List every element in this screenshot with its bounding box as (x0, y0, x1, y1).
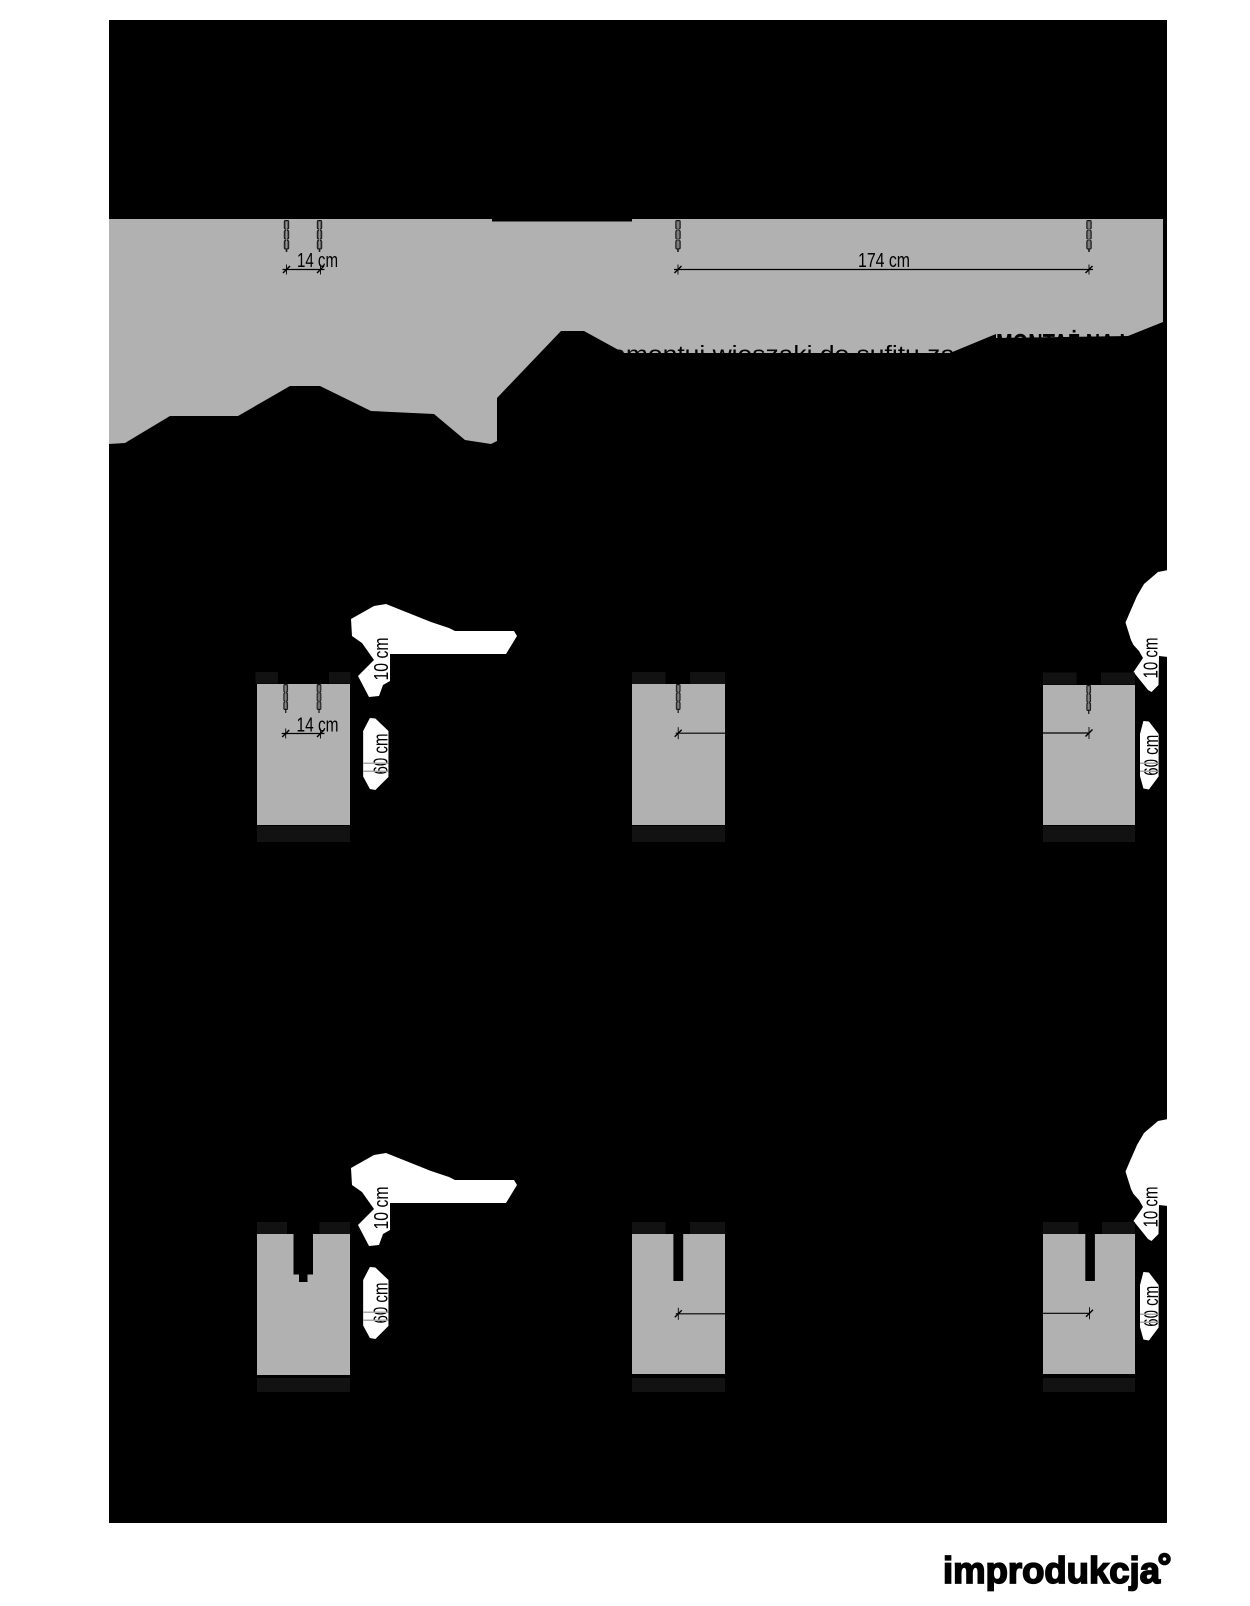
svg-text:174 cm: 174 cm (858, 250, 910, 272)
cable fitting (1087, 685, 1091, 714)
slot (294, 1234, 314, 1275)
leader line (1041, 1307, 1094, 1319)
detail block D (257, 1234, 350, 1375)
svg-text:60 cm: 60 cm (1141, 735, 1163, 776)
svg-text:60 cm: 60 cm (1141, 1286, 1163, 1327)
dimension 14 cm (detail) (282, 715, 339, 739)
lamp silhouette (clipped) (1126, 570, 1169, 692)
svg-text:improdukcja: improdukcja (943, 1549, 1161, 1591)
label 60 cm (1140, 721, 1163, 790)
detail block C (1043, 685, 1135, 825)
top edge notch (492, 219, 632, 222)
svg-text:14 cm: 14 cm (297, 250, 338, 272)
label 60 cm (1140, 1272, 1163, 1341)
ceiling slab (109, 219, 1163, 444)
cable fitting (284, 684, 288, 713)
cable fitting (284, 220, 288, 252)
leader wedge (950, 334, 996, 353)
detail block E (632, 1234, 725, 1374)
cable fitting (676, 220, 680, 252)
leader line (1041, 727, 1093, 739)
svg-text:10 cm: 10 cm (1141, 1187, 1163, 1228)
svg-text:zamontuj wieszaki do sufitu za: zamontuj wieszaki do sufitu za (598, 342, 956, 369)
cable fitting (676, 684, 680, 713)
leader line (675, 1308, 725, 1320)
svg-text:14 cm: 14 cm (297, 715, 339, 737)
label 60 cm (363, 1267, 393, 1339)
detail block A (257, 684, 350, 825)
svg-text:10 cm: 10 cm (371, 638, 393, 681)
svg-text:10 cm: 10 cm (1141, 638, 1163, 679)
lamp silhouette (351, 604, 517, 697)
slot (1085, 1234, 1095, 1281)
dimension 14 cm (283, 250, 339, 275)
logo improdukcja (943, 1549, 1171, 1591)
slot (673, 1234, 683, 1281)
drawing area (transparent rendered black) (109, 20, 1167, 1523)
svg-text:10 cm: 10 cm (371, 1187, 393, 1230)
detail block B (632, 684, 725, 825)
cable fitting (317, 684, 321, 713)
svg-text:60 cm: 60 cm (371, 734, 393, 775)
cable fitting (317, 220, 321, 252)
leader line (675, 727, 725, 739)
dimension 174 cm (674, 250, 1093, 275)
detail block F (1043, 1234, 1135, 1374)
lamp silhouette (351, 1153, 517, 1246)
svg-text:60 cm: 60 cm (371, 1283, 393, 1324)
cable fitting (1087, 220, 1091, 252)
faint bracket marks (256, 672, 279, 684)
label 60 cm (363, 718, 393, 790)
lamp silhouette (clipped) (1126, 1119, 1169, 1241)
